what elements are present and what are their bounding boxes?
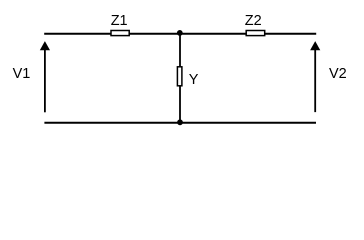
- admittance box Y (shunt): [177, 67, 182, 86]
- wire: shunt branch, upper segment: [179, 34, 181, 68]
- wire: top rail, right segment: [264, 33, 316, 35]
- arrow V2: head: [310, 41, 320, 50]
- arrow V2: shaft: [314, 47, 316, 112]
- resistor box Z2 (series impedance): [246, 31, 265, 36]
- resistor box Z1 (series impedance): [111, 31, 129, 36]
- wire: top rail, left segment: [44, 33, 112, 35]
- svg-text:V2: V2: [329, 66, 347, 82]
- arrow V1: shaft: [44, 47, 46, 112]
- wire: shunt branch, lower segment: [179, 86, 181, 123]
- svg-text:Z1: Z1: [111, 13, 128, 29]
- wire: top rail, middle segment: [129, 33, 248, 35]
- junction node dot, top: [177, 30, 183, 36]
- svg-text:Z2: Z2: [245, 13, 262, 29]
- svg-text:V1: V1: [13, 66, 31, 82]
- arrow V1: head: [40, 41, 50, 50]
- junction node dot, bottom: [177, 119, 183, 125]
- svg-text:Y: Y: [189, 72, 199, 88]
- wire: bottom rail: [44, 122, 316, 124]
